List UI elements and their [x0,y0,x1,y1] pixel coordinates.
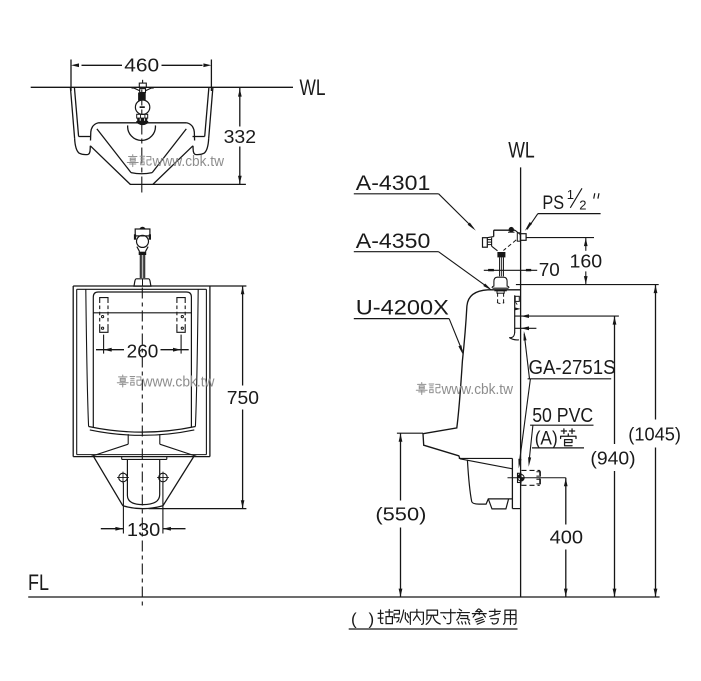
dimension 460 arrows [71,63,79,67]
front view flush valve nut [139,252,147,255]
leader A-4301 [439,194,474,229]
front view body outer walls [72,286,74,457]
side view valve tail nut [497,252,505,257]
dimension 400 arrows [564,478,568,486]
dimension 332 arrows [238,89,242,97]
dimension (550) top reference line [397,432,423,434]
side view drain shoe [488,499,508,509]
top view flush valve flange [136,121,148,123]
dimension 160 arrows [584,238,588,246]
side view valve top screw [509,227,514,232]
front view side taper lines [86,289,89,426]
front view flush valve tube [139,255,141,278]
top view flush valve nut [137,118,147,121]
front view drain throat [127,434,129,444]
watermark (front view) [117,375,128,387]
front view shelf line [93,312,191,314]
svg-text:1: 1 [567,187,574,202]
side view flush valve body [494,229,515,231]
top view flush valve neck [140,89,146,93]
svg-text:A-4350: A-4350 [356,230,431,253]
top view flush valve countersink wings [134,88,152,91]
top view right foot [193,138,209,154]
svg-text:GA-2751S: GA-2751S [529,357,616,379]
svg-text:WL: WL [300,75,326,100]
side view flush valve wall square [520,234,526,241]
front view right hanger bracket [177,298,185,303]
svg-text:(1045): (1045) [628,425,681,445]
top view urinal left wall [70,87,74,138]
front view throat flares [91,444,128,456]
side view sprayer hidden spud [497,293,499,303]
FL floor line [28,596,659,598]
dimension (1045) line [655,285,657,420]
svg-text:U-4200X: U-4200X [356,297,449,320]
top view flush valve stem cap above WL [139,83,146,87]
160 bottom reference / 1045 top reference line [516,284,659,286]
front view outlet bottom arc [123,506,163,509]
front view left bolt [119,473,128,482]
svg-text:160: 160 [570,251,603,271]
top view rim [99,122,187,124]
side view outlet boot [467,460,512,504]
svg-text:130: 130 [127,520,160,540]
svg-text:FL: FL [28,570,49,595]
front view outlet inner U [127,459,159,504]
side view drain center line [508,477,566,479]
side view valve hidden diagonal [503,240,516,251]
front view flush valve taper [137,247,148,252]
dimension (940) line [614,316,616,444]
WL water line (top view) [31,86,293,88]
front view body top edge / 750 extension [73,285,246,287]
watermark (side view) [416,382,427,394]
dimension 260 line [96,349,124,351]
front view body inner walls [76,289,78,454]
svg-text:332: 332 [224,127,257,147]
front view left hanger bracket [100,298,108,303]
svg-text:PS: PS [542,192,564,214]
bracket bolt line upper / 940 top reference [515,315,619,317]
svg-text:50 PVC: 50 PVC [532,405,593,427]
160 top reference line [526,237,594,239]
dimension 460 line [82,64,123,66]
dimension 260 arrows [104,348,112,352]
dimension 260 extension lines [103,335,105,354]
svg-text:A-4301: A-4301 [356,172,431,195]
top view left foot [75,138,91,154]
dimension 750 arrows [241,286,245,294]
dimension 130 arrows [115,527,123,531]
front view bowl bottom curves [89,427,196,433]
dimension (550) arrows [399,434,403,442]
top view bowl inner bottom [131,173,152,174]
top view flush valve ball [135,100,149,114]
svg-text:): ) [369,610,375,629]
svg-text:70: 70 [539,260,560,280]
leader PS 1/2" [527,214,538,230]
top view bowl inner slope left [97,129,131,173]
top view bowl outer slope right [153,146,193,185]
side view valve down tube [499,257,501,276]
dimension 130 extension lines [122,483,124,534]
side view drain flange [518,473,522,482]
leader A-4350 [439,252,490,289]
top view flush valve spud below rim [138,123,147,124]
front view outlet shoulder bar [122,458,167,460]
bracket bottom hook [509,332,514,338]
dimension (550) line [400,433,402,500]
side view bowl ledge line [459,457,513,459]
svg-text:2: 2 [579,197,586,212]
watermark (top view) [127,155,138,167]
dimension 750 line [242,286,244,386]
bracket bolt line lower [515,327,537,329]
svg-text:(: ( [351,610,357,629]
top view bottom edge / 332 reference line [130,183,246,185]
side view drain position mark [521,478,524,481]
dimension (940) arrows [613,317,617,325]
svg-text:www.cbk.tw: www.cbk.tw [142,374,215,390]
top view bowl inner slope right [152,129,186,173]
dimension 130 line [101,528,124,530]
top view urinal right wall [209,87,213,138]
svg-text:WL: WL [508,137,535,162]
front view center line [141,288,143,608]
front view flush valve side ports [134,234,136,239]
dimension 70 ticks [488,269,494,271]
dimension 460 extension line left [70,60,72,92]
svg-text:750: 750 [227,388,259,408]
front view outlet outer sides [94,457,123,506]
leader GA-2751S up to bracket [524,334,529,379]
dimension (1045) arrows [654,285,658,293]
leader GA-2751S down to drain [519,379,530,464]
leader 50 PVC down to pipe [529,425,533,462]
dimension 460 extension line right [210,60,212,92]
wall line [520,167,522,597]
front view right bolt [159,473,168,482]
front view flush valve top cap [140,227,145,229]
dimension 70 line [484,269,537,271]
dimension 160 line [585,238,587,251]
front view valve spud base [134,279,151,286]
front view back plate [93,292,191,427]
svg-text:(A): (A) [535,429,558,450]
svg-text:www.cbk.tw: www.cbk.tw [441,382,514,398]
top view flush valve lower neck [137,114,148,118]
svg-text:400: 400 [550,527,584,547]
side view sprayer bell [492,277,509,288]
dimension 332 line [239,88,241,127]
side view back strip [511,458,513,508]
front view body bottom edge [73,456,210,458]
side view wall mounting bracket GA-2751S [514,295,516,332]
top view flush valve dark block [138,93,146,101]
front view flush valve ball [137,235,149,247]
side view PVC socket (dashed) [522,469,540,471]
dimension 400 line [565,478,567,525]
svg-text:www.cbk.tw: www.cbk.tw [152,154,225,170]
svg-text:460: 460 [124,55,159,75]
dimension 750 bottom extension [149,508,247,510]
side view underside slope [460,459,512,469]
leader U-4200X [449,319,462,352]
side view urinal body outline [423,290,521,459]
svg-text:(550): (550) [375,505,426,525]
svg-text:(940): (940) [590,448,635,468]
top view bowl outer slope left [90,146,130,185]
top view center line [141,90,143,195]
top view splash arc [128,125,156,140]
